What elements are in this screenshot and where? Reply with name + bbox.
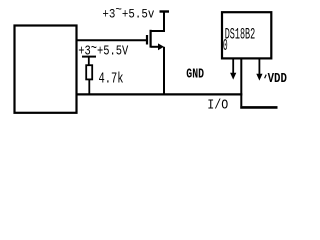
wire: I/O bus from MCU to DQ pin [76, 93, 242, 95]
transistor Q1 source lead [151, 46, 159, 48]
wire: resistor bottom to I/O bus [88, 80, 90, 96]
transistor Q1 gate bar [146, 35, 148, 45]
resistor R1 body [86, 65, 92, 79]
svg-text:4.7k: 4.7k [99, 70, 124, 87]
pin DQ lead (to I/O bus) [240, 59, 242, 106]
svg-text:GND: GND [186, 66, 204, 82]
pin VDD arrowhead [256, 74, 262, 81]
tick mark before VDD label [265, 75, 267, 79]
transistor Q1 drain lead [151, 12, 164, 31]
pin GND lead [232, 59, 234, 74]
transistor Q1 source arrow [158, 43, 164, 50]
DS18B20 box U2 [222, 12, 271, 58]
wire: rail to resistor top [88, 57, 90, 65]
transistor Q1 channel bar [150, 30, 152, 48]
svg-text:I/O: I/O [207, 97, 228, 113]
power rail bar +3~+5.5v [160, 10, 170, 12]
MCU box U1 (left, unlabeled) [15, 26, 77, 113]
wire: MOSFET source down to I/O bus [163, 47, 165, 95]
svg-text:DS18B2: DS18B2 [225, 25, 256, 43]
pin GND arrowhead [230, 73, 236, 80]
svg-text:0: 0 [223, 36, 228, 55]
wire: bus continuation to other devices [240, 106, 277, 109]
power rail bar for resistor [82, 56, 96, 58]
pin VDD lead [258, 59, 260, 75]
wire: gate lead from MCU box to MOSFET gate [76, 39, 147, 41]
svg-text:VDD: VDD [268, 72, 287, 87]
